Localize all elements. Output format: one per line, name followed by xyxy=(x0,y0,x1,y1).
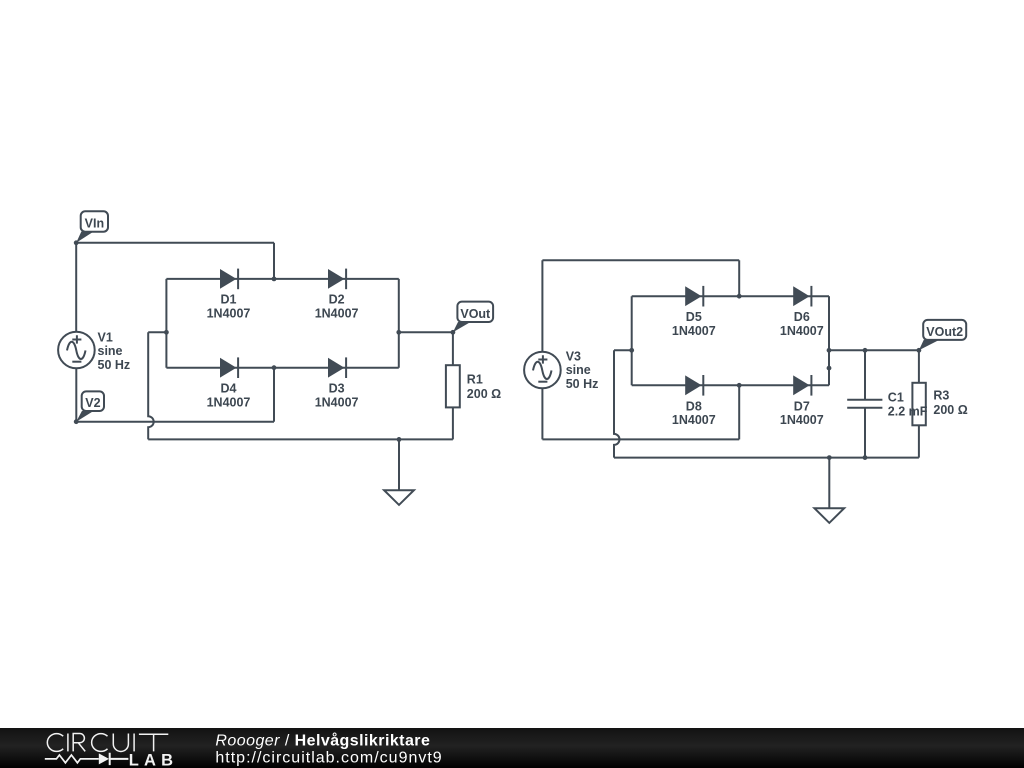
wire bottom diode row xyxy=(632,384,829,386)
wire ground stem xyxy=(828,458,830,508)
wire tap vertical with hop over V3 wire xyxy=(614,350,620,457)
svg-text:D4: D4 xyxy=(221,382,237,396)
wire V3 bottom stem xyxy=(541,388,543,439)
svg-text:D8: D8 xyxy=(686,399,702,413)
svg-text:D7: D7 xyxy=(794,399,810,413)
wire output row xyxy=(829,349,919,351)
node VOut xyxy=(451,302,494,335)
node VIn xyxy=(74,211,108,245)
svg-text:50 Hz: 50 Hz xyxy=(98,358,131,372)
diode D5 xyxy=(672,286,716,338)
svg-text:V3: V3 xyxy=(566,350,581,364)
resistor R1 xyxy=(446,365,501,407)
wire bridge left vertical xyxy=(631,296,633,385)
svg-text:LAB: LAB xyxy=(129,751,179,768)
svg-text:D1: D1 xyxy=(221,293,237,307)
junction node ground tap xyxy=(397,437,402,442)
junction node left tap xyxy=(629,348,634,353)
wire tap to left xyxy=(148,331,166,333)
junction node between D5 D6 xyxy=(737,294,742,299)
logo diode xyxy=(99,753,109,764)
junction node C1 bottom xyxy=(863,455,868,460)
svg-text:1N4007: 1N4007 xyxy=(780,413,824,427)
wire tap vertical with hop over V2 wire xyxy=(148,332,154,439)
svg-text:VIn: VIn xyxy=(85,217,104,231)
wire V3 top stem xyxy=(541,260,543,352)
wire V1 bottom stem xyxy=(75,368,77,422)
diode D6 xyxy=(780,286,824,338)
resistor R3 xyxy=(912,383,967,426)
junction node between D8 D7 xyxy=(737,383,742,388)
svg-text:200 Ω: 200 Ω xyxy=(467,387,501,401)
wire bridge right vertical xyxy=(828,296,830,385)
ground xyxy=(814,508,844,523)
svg-text:sine: sine xyxy=(98,344,123,358)
svg-text:sine: sine xyxy=(566,363,591,377)
junction node VOut row xyxy=(396,330,401,335)
svg-text:V1: V1 xyxy=(98,331,113,345)
svg-text:1N4007: 1N4007 xyxy=(207,306,251,320)
junction node C1 top xyxy=(863,348,868,353)
logo resistor zigzag xyxy=(45,755,99,763)
junction node between D4 D3 xyxy=(272,365,277,370)
diode D4 xyxy=(207,357,251,409)
diode D8 xyxy=(672,375,716,427)
junction node ground tap xyxy=(827,455,832,460)
svg-text:1N4007: 1N4007 xyxy=(315,396,359,410)
wire top diode row xyxy=(166,278,398,280)
wire V3 top horizontal xyxy=(542,259,739,261)
diode D7 xyxy=(780,375,824,427)
wire VIn top horizontal xyxy=(76,242,274,244)
wire up to bottom bridge junction xyxy=(273,368,275,422)
svg-text:50 Hz: 50 Hz xyxy=(566,377,599,391)
svg-text:Roooger / Helvågslikriktare: Roooger / Helvågslikriktare xyxy=(215,732,430,750)
wire bridge left vertical xyxy=(165,279,167,368)
svg-text:C1: C1 xyxy=(888,391,904,405)
svg-text:1N4007: 1N4007 xyxy=(207,396,251,410)
wire into top bridge junction xyxy=(273,243,275,279)
wire bottom rail xyxy=(614,457,919,459)
capacitor C1 xyxy=(847,350,882,457)
svg-text:2.2 mF: 2.2 mF xyxy=(888,405,928,419)
svg-text:D5: D5 xyxy=(686,310,702,324)
wire bottom rail xyxy=(148,438,453,440)
diode D1 xyxy=(207,269,251,321)
svg-text:D2: D2 xyxy=(329,293,345,307)
junction node left tap xyxy=(164,330,169,335)
voltage source V1 xyxy=(58,331,130,372)
svg-text:1N4007: 1N4007 xyxy=(315,306,359,320)
wire V2 horizontal xyxy=(76,421,274,423)
svg-text:VOut: VOut xyxy=(460,307,491,321)
wire tap to left xyxy=(614,349,632,351)
svg-text:http://circuitlab.com/cu9nvt9: http://circuitlab.com/cu9nvt9 xyxy=(215,749,442,766)
svg-text:R3: R3 xyxy=(933,388,949,402)
svg-text:V2: V2 xyxy=(85,396,100,410)
wire up to bottom bridge junction xyxy=(738,385,740,439)
svg-text:1N4007: 1N4007 xyxy=(780,324,824,338)
svg-text:D3: D3 xyxy=(329,382,345,396)
logo CIRCUIT xyxy=(47,734,168,752)
junction node mid right vertical xyxy=(827,366,832,371)
wire into top bridge junction xyxy=(738,260,740,296)
wire bottom diode row xyxy=(166,367,398,369)
svg-text:D6: D6 xyxy=(794,310,810,324)
wire R1 bottom stem xyxy=(452,407,454,439)
wire VOut row xyxy=(399,331,453,333)
ground xyxy=(384,490,414,505)
diode D3 xyxy=(315,357,359,409)
wire R3 bottom stem xyxy=(918,425,920,457)
diode D2 xyxy=(315,269,359,321)
wire R1 top stem xyxy=(452,332,454,365)
node VOut2 xyxy=(917,320,967,353)
node V2 xyxy=(74,391,104,424)
capacitor C1 value labels xyxy=(888,391,928,419)
svg-text:R1: R1 xyxy=(467,372,483,386)
wire bridge right vertical xyxy=(398,279,400,368)
wire R3 top stem xyxy=(918,350,920,383)
svg-text:200 Ω: 200 Ω xyxy=(933,403,967,417)
wire top diode row xyxy=(632,295,829,297)
FOOTER xyxy=(0,728,1024,768)
svg-text:VOut2: VOut2 xyxy=(926,325,963,339)
wire V3 bottom horizontal xyxy=(542,438,739,440)
junction node output row xyxy=(827,348,832,353)
voltage source V3 xyxy=(524,350,598,391)
wire V1 top stem xyxy=(75,243,77,332)
svg-text:1N4007: 1N4007 xyxy=(672,413,716,427)
junction node between D1 D2 xyxy=(272,277,277,282)
wire ground stem xyxy=(398,439,400,490)
svg-text:1N4007: 1N4007 xyxy=(672,324,716,338)
